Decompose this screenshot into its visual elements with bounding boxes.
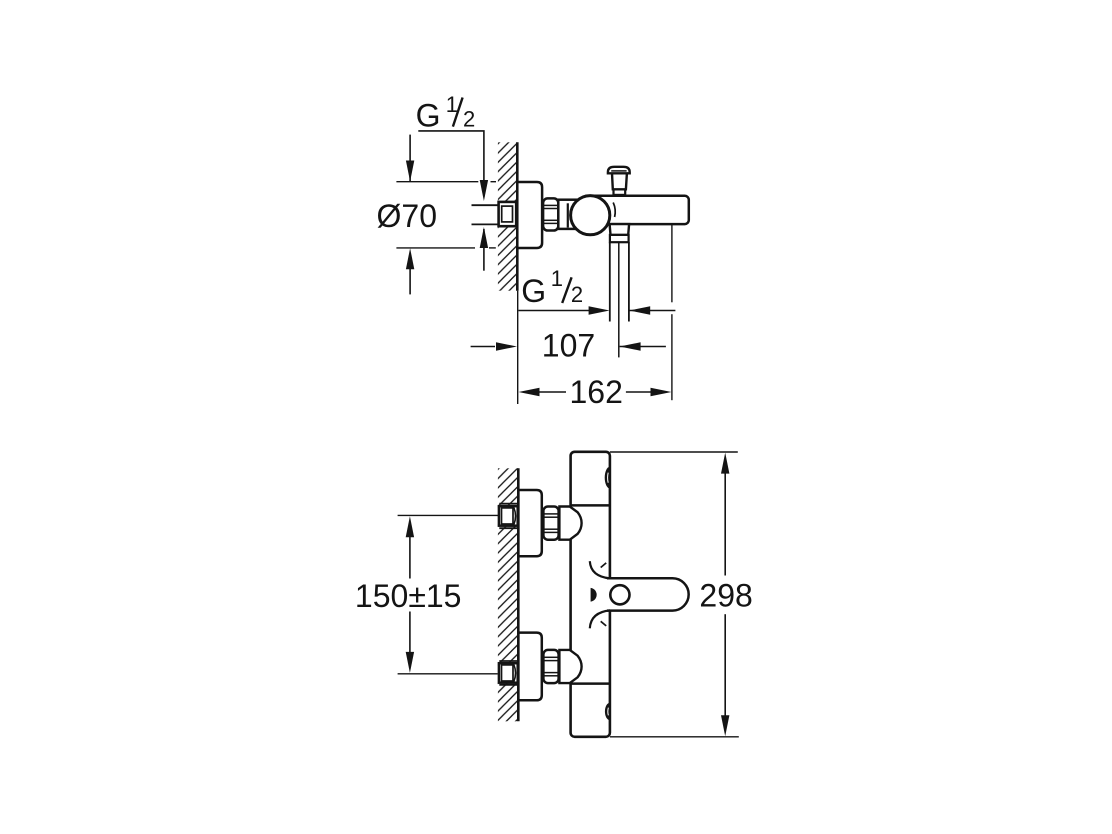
wall hatching (front view) [498,468,518,721]
spout body (top view) [583,196,689,224]
diverter knob neck [612,173,627,189]
escutcheon flange (top view) [517,182,542,248]
temperature stop button [591,588,597,602]
dimension 107 line left with arrow right at wall [471,346,495,348]
upper inlet cone [559,507,581,540]
298 dimension line with arrows [721,453,729,474]
dia70 dimension extension lines [396,181,478,183]
svg-text:107: 107 [542,327,595,363]
body shoulder arc [613,203,615,218]
upper union square fitting [499,506,518,526]
svg-text:2: 2 [463,106,475,131]
dia70 dimension line lower with arrow up [406,248,414,269]
svg-text:Ø70: Ø70 [377,198,437,234]
handle pivot circle [610,585,629,604]
body cap joint line top [571,504,610,507]
diverter knob base collar [614,189,626,195]
G 1/2 arrow down at fitting top [480,180,488,201]
upper escutcheon (front view) [518,490,541,556]
G 1/2 leader line [418,131,484,197]
150 extension line bottom [398,673,498,675]
lower escutcheon (front view) [518,633,541,701]
svg-text:G: G [416,97,441,133]
body cap joint line bottom [571,682,610,685]
hex nut (top view) [543,198,558,230]
298 extension line top [610,451,738,453]
svg-text:150±15: 150±15 [355,578,462,614]
union square fitting (top view) [499,202,517,226]
lever handle (front view) [607,580,627,610]
lower inlet cone [559,650,581,683]
thermostat body (front view) [571,452,610,737]
dimension 162 arrow left at wall line [519,388,540,396]
hose G1/2 dimension line right with arrow left [629,310,675,312]
dimension 162 arrow right at outlet line [651,388,672,396]
supply pipe stub behind wall [472,204,500,206]
adapter sleeve (top view) [558,200,577,229]
hose G1/2 dimension line left with arrow right [519,310,601,312]
298 extension line bottom [610,736,739,738]
wall hatching (top view) [498,142,517,290]
wall surface line (top view) [516,142,519,290]
shower hose outlet thread lines [609,242,611,321]
wall extension line (top view) [517,291,519,404]
lower union flange lines [499,660,517,662]
diverter knob cap [608,167,630,174]
svg-text:162: 162 [570,374,623,410]
svg-text:298: 298 [699,577,752,613]
lower union square fitting [499,663,518,683]
dimension 107 line right with arrow left at hose centerline [620,346,666,348]
G 1/2 arrow up at fitting bottom [480,227,488,248]
svg-text:2: 2 [571,282,583,307]
top screw bulge [605,467,610,489]
bottom screw bulge [605,703,610,720]
thermostat knob circle (top view) [571,196,610,235]
handle flange curve bottom [590,610,610,628]
150 dimension line with arrows [406,516,414,537]
handle flange curve top [590,561,610,578]
dia70 dimension line upper with arrow down [409,135,411,182]
upper hex nut (front view) [543,507,558,540]
hose coupling nut band [610,235,629,242]
hand shower outlet bracket [610,224,630,235]
150 extension line top [398,514,499,516]
lower hex nut (front view) [543,650,558,683]
svg-text:1: 1 [551,266,563,291]
wall surface line (front view) [517,468,520,721]
hose centerline extension [618,242,620,357]
spout outlet extension line [671,224,673,302]
svg-text:G: G [521,273,546,309]
upper union flange lines [499,503,517,505]
